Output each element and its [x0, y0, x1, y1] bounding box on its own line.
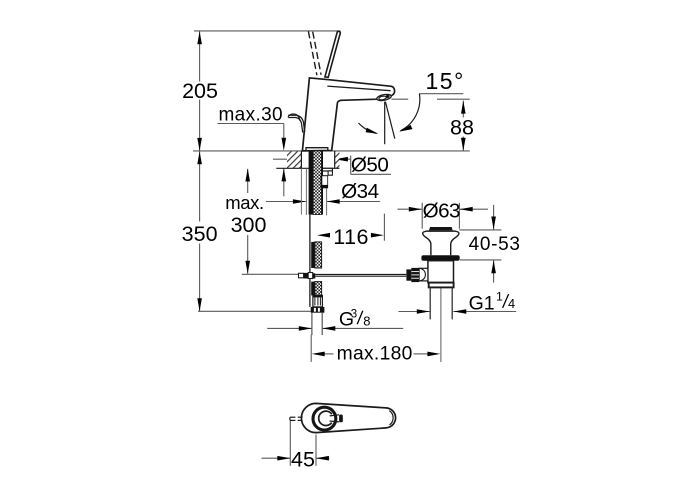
svg-text:40-53: 40-53 — [469, 234, 521, 255]
svg-text:4: 4 — [508, 296, 515, 311]
svg-text:15°: 15° — [426, 68, 465, 94]
svg-text:Ø50: Ø50 — [351, 153, 388, 176]
svg-text:350: 350 — [182, 222, 218, 246]
svg-text:G1: G1 — [469, 293, 495, 315]
svg-text:max.: max. — [225, 192, 264, 213]
svg-text:300: 300 — [231, 213, 267, 237]
svg-text:3: 3 — [351, 308, 357, 320]
svg-text:max.180: max.180 — [337, 344, 413, 365]
svg-text:max.30: max.30 — [219, 104, 283, 125]
svg-text:1: 1 — [496, 289, 503, 303]
svg-text:Ø34: Ø34 — [341, 180, 378, 203]
svg-text:116: 116 — [333, 225, 369, 249]
svg-text:205: 205 — [182, 79, 218, 103]
svg-text:88: 88 — [450, 115, 474, 139]
svg-text:8: 8 — [363, 313, 370, 328]
svg-text:Ø63: Ø63 — [423, 199, 460, 222]
svg-text:45: 45 — [291, 448, 315, 472]
